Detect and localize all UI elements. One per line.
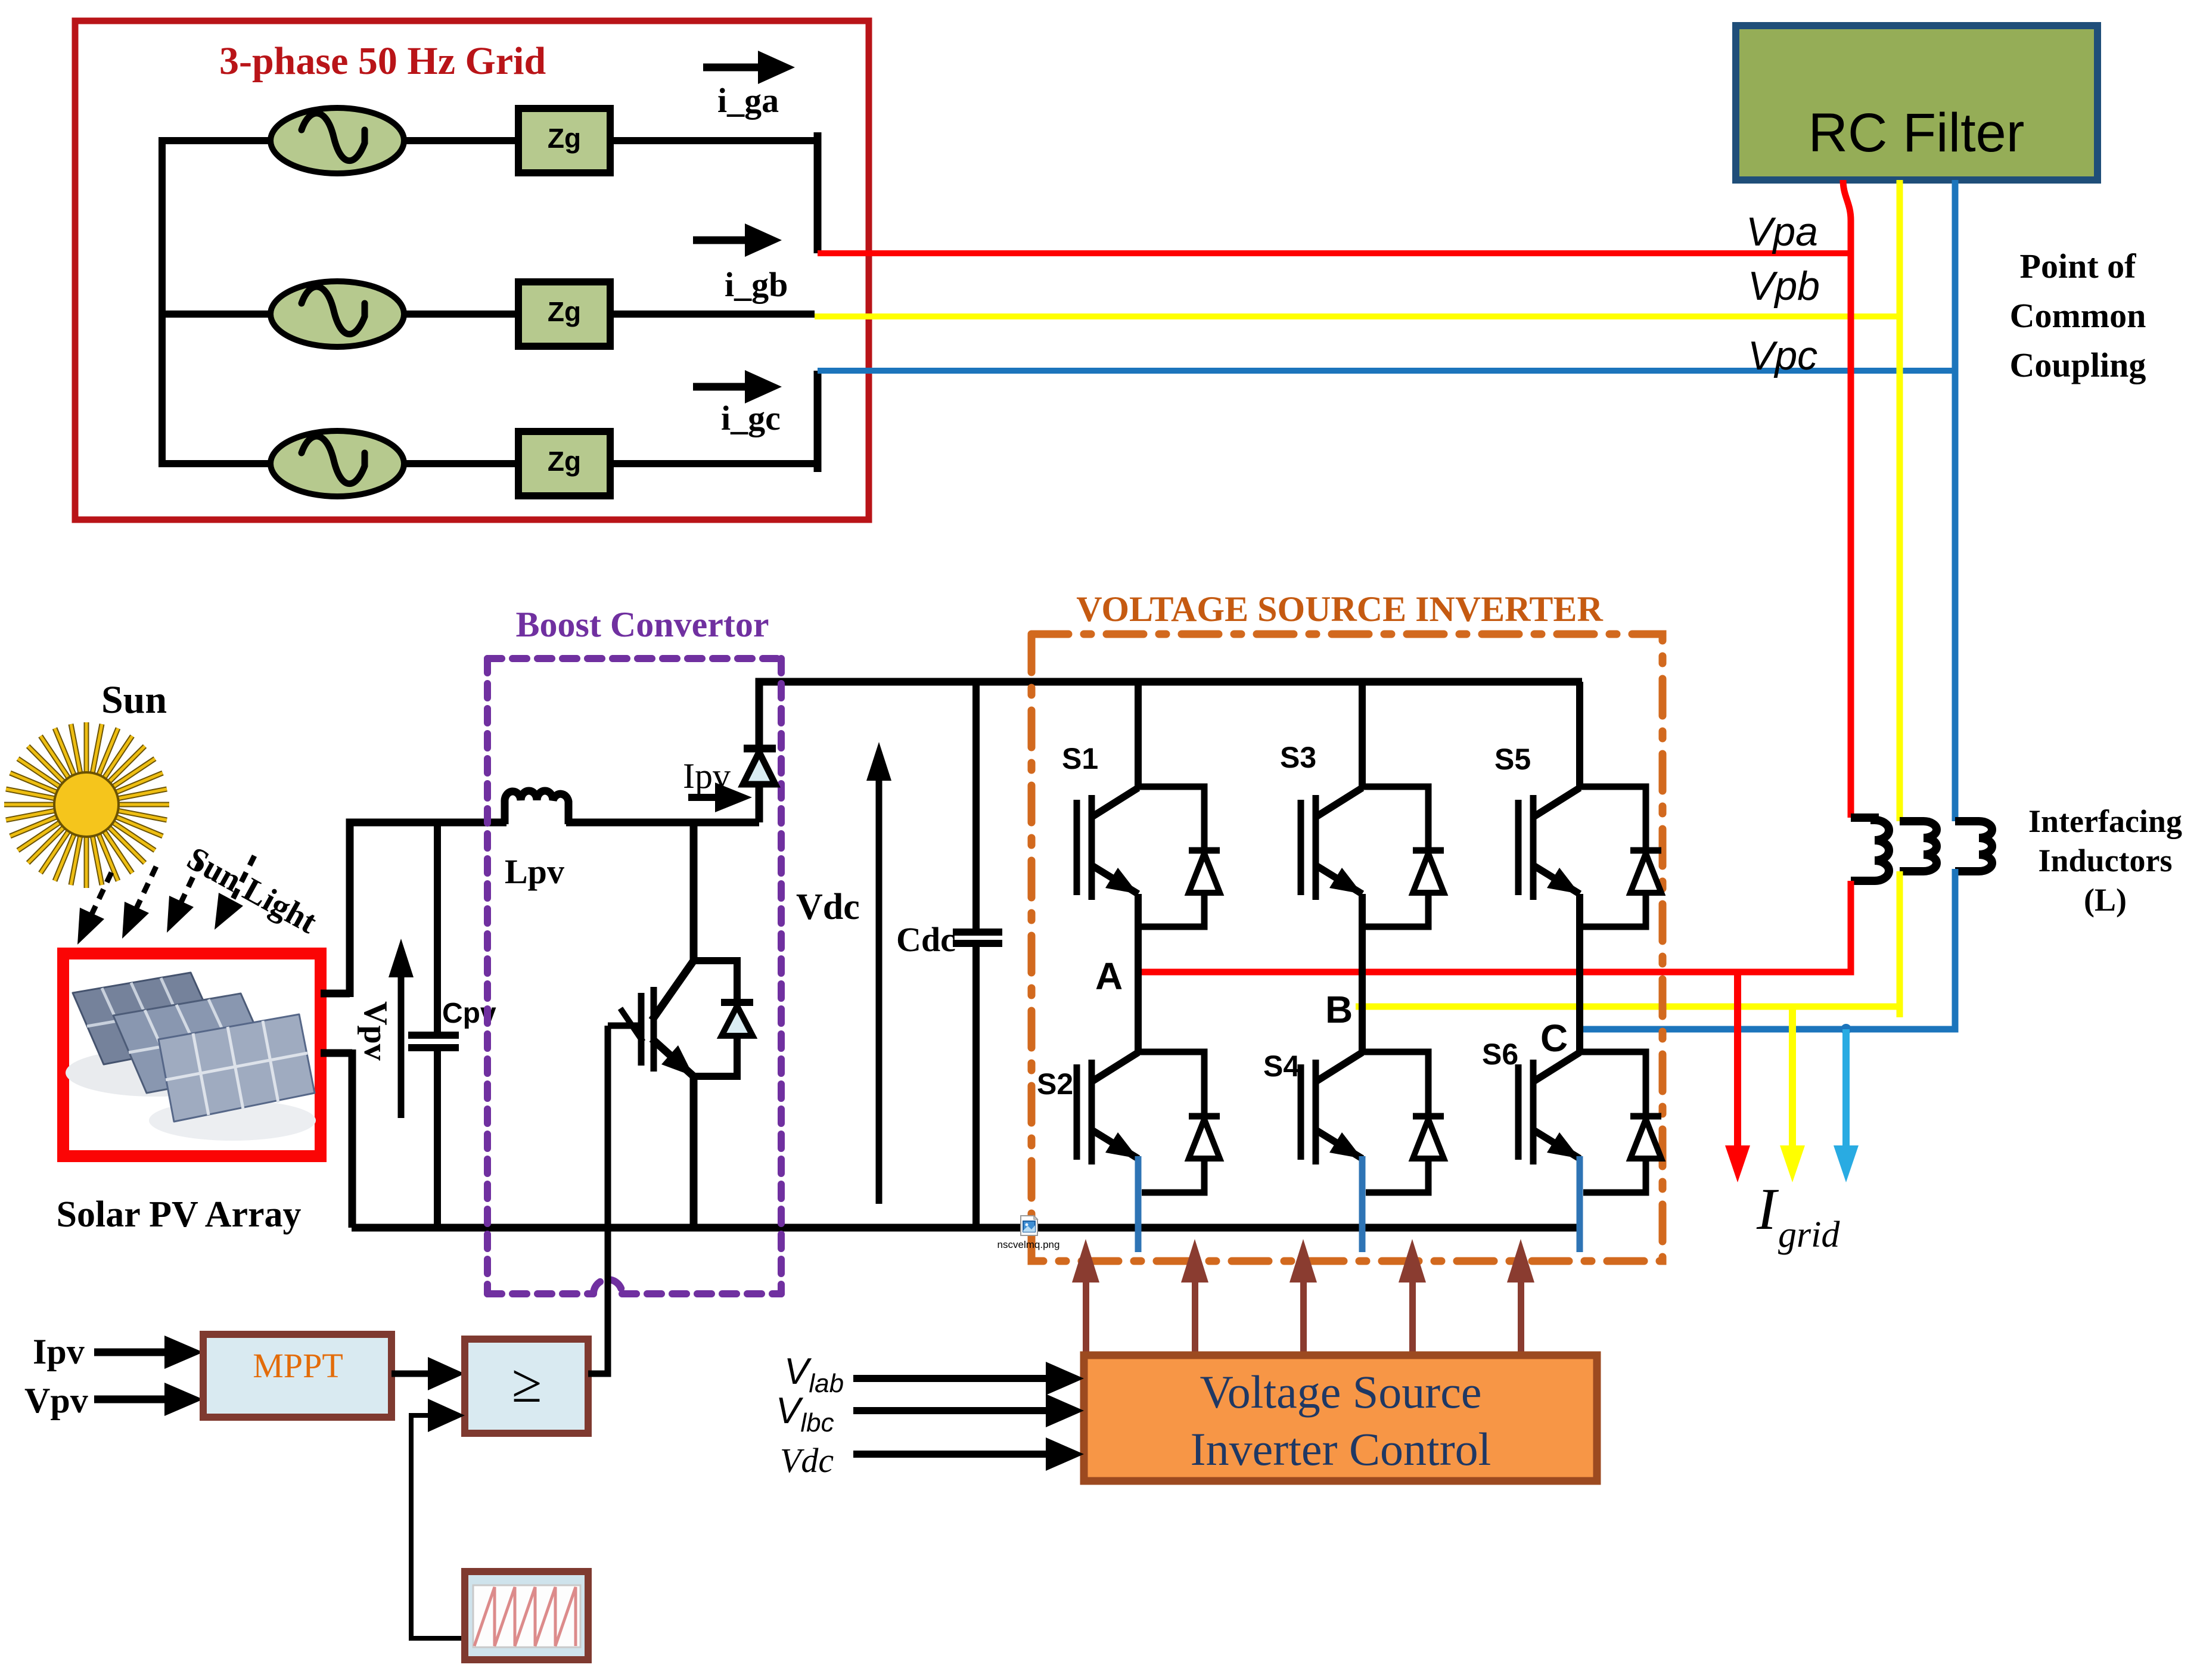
transistor S4 (IGBT with diode)	[1263, 1049, 1444, 1193]
wire: source Ga to Zg1	[404, 137, 518, 144]
svg-text:i_gb: i_gb	[725, 265, 788, 304]
wire Vpc (blue phase line)	[818, 368, 1955, 374]
wire: left bus	[159, 141, 166, 464]
svg-text:MPPT: MPPT	[253, 1346, 343, 1385]
current arrow Igrid phase a	[1725, 972, 1750, 1182]
svg-text:Ipv: Ipv	[33, 1332, 85, 1371]
wire: source Gc to Zg3	[404, 460, 518, 467]
wire: inductor La to node A (red)	[1138, 881, 1851, 972]
wire: phase c riser	[814, 371, 822, 472]
sawtooth feed arrowhead	[428, 1399, 465, 1432]
VSI dash-dot enclosure	[1031, 634, 1663, 1261]
impedance Zg (phase b)	[518, 282, 610, 346]
svg-text:Boost Convertor: Boost Convertor	[516, 605, 769, 644]
transistor S6 (IGBT with diode)	[1482, 1038, 1661, 1193]
arrow MPPT to comparator	[391, 1357, 465, 1390]
wire: inductor Lc to node C (blue)	[1578, 869, 1955, 1029]
PV panel rear	[73, 973, 222, 1064]
label Igrid	[1756, 1176, 1840, 1255]
current arrow i_ga	[703, 51, 795, 120]
voltage arrow Vpv	[357, 939, 414, 1118]
solar PV array block	[24, 589, 1663, 1660]
control input Vdc	[780, 1437, 1084, 1480]
svg-text:S3: S3	[1280, 741, 1316, 774]
wire: leg C mid	[1576, 894, 1583, 1053]
wire Vpa (red phase line)	[818, 250, 1851, 256]
wire: source Gb to Zg2	[404, 310, 518, 318]
label: point of common coupling	[2010, 247, 2146, 384]
boost convertor dashed enclosure	[487, 659, 781, 1294]
svg-text:RC Filter: RC Filter	[1809, 103, 2025, 163]
svg-text:Voltage Source: Voltage Source	[1200, 1366, 1482, 1418]
diode D1 (boost series diode)	[743, 749, 776, 784]
capacitor Cpv	[408, 822, 496, 1228]
svg-text:Vpb: Vpb	[1748, 263, 1820, 309]
wire: Lpv to boost diode corner	[566, 819, 759, 827]
sawtooth feed wire	[411, 1415, 465, 1638]
sun light dashed arrow 2	[122, 867, 156, 939]
svg-text:Inductors: Inductors	[2038, 843, 2172, 878]
wire: bus to source Ga	[159, 137, 272, 144]
inductor Lb	[1900, 821, 1937, 871]
svg-text:Vpv: Vpv	[24, 1381, 88, 1420]
impedance Zg (phase a)	[518, 108, 610, 173]
transistor Q1 (boost IGBT)	[608, 822, 694, 1228]
current arrow i_gc	[693, 370, 782, 437]
svg-text:C: C	[1540, 1017, 1568, 1060]
diode D2 (boost IGBT antiparallel)	[694, 961, 753, 1076]
wire: leg A emitter stub (blue)	[1135, 1156, 1142, 1252]
current arrow i_gb	[693, 223, 788, 304]
svg-text:i_gc: i_gc	[721, 399, 781, 437]
PV panel middle	[113, 993, 274, 1093]
svg-text:Vpa: Vpa	[1746, 209, 1818, 254]
sun icon	[4, 722, 169, 888]
control input V_lbc	[776, 1390, 1084, 1437]
svg-text:Lpv: Lpv	[505, 852, 564, 891]
wire: Zg1 to node a	[610, 137, 818, 144]
svg-text:≥: ≥	[512, 1353, 542, 1414]
inductor La	[1851, 818, 1889, 881]
PV panel front	[159, 1014, 315, 1122]
svg-text:Zg: Zg	[548, 296, 581, 327]
wire Vpb (yellow phase line)	[815, 313, 1900, 319]
gate drive arrow 2	[1181, 1239, 1208, 1355]
sun light dashed arrow 4	[215, 856, 254, 930]
input arrow Vpv	[94, 1383, 203, 1416]
voltage arrow Vdc	[796, 742, 891, 1204]
svg-text:Vpc: Vpc	[1748, 333, 1817, 378]
wire: bus to source Gc	[159, 460, 272, 467]
wire: RC filter phase c (blue)	[1952, 180, 1959, 821]
wire: DC negative rail	[352, 1224, 1582, 1232]
current arrow Igrid phase b	[1780, 1007, 1805, 1182]
wire: PV positive branch riser	[350, 822, 507, 997]
control input V_lab	[784, 1351, 1084, 1398]
svg-text:S6: S6	[1482, 1038, 1518, 1071]
VSI control block	[1084, 1355, 1597, 1481]
wire: DC positive rail	[759, 682, 1582, 822]
svg-text:3-phase 50 Hz Grid: 3-phase 50 Hz Grid	[219, 39, 546, 83]
gate drive arrow 3	[1289, 1239, 1317, 1355]
svg-text:Sun: Sun	[101, 678, 167, 722]
gate drive arrow 1	[1072, 1239, 1099, 1355]
sawtooth generator block	[465, 1572, 588, 1660]
wire: leg A mid	[1135, 894, 1142, 1053]
grid enclosure box	[75, 21, 869, 520]
transistor S3 (IGBT with diode)	[1280, 682, 1444, 927]
svg-text:Vdc: Vdc	[796, 887, 860, 927]
svg-text:S2: S2	[1037, 1067, 1073, 1101]
svg-text:(L): (L)	[2084, 882, 2127, 918]
wire: PV negative stub	[321, 1049, 352, 1057]
wire: bus to source Gb	[159, 310, 272, 318]
wire: Zg3 to node c	[610, 460, 818, 467]
svg-text:B: B	[1325, 988, 1353, 1031]
svg-text:Coupling: Coupling	[2010, 346, 2146, 384]
svg-text:grid: grid	[1778, 1215, 1840, 1255]
svg-text:S4: S4	[1263, 1049, 1300, 1083]
input arrow Ipv	[94, 1336, 203, 1369]
svg-text:nscvelmq.png: nscvelmq.png	[998, 1239, 1060, 1250]
svg-text:Vdc: Vdc	[780, 1441, 834, 1480]
stray file icon artifact	[1021, 1216, 1037, 1235]
svg-text:Interfacing: Interfacing	[2028, 803, 2182, 839]
wire: Zg2 to node b	[610, 310, 815, 318]
svg-text:S5: S5	[1494, 743, 1531, 776]
svg-text:VOLTAGE SOURCE INVERTER: VOLTAGE SOURCE INVERTER	[1076, 589, 1603, 629]
wire: comparator output to boost gate	[588, 1026, 608, 1374]
comparator block	[465, 1339, 588, 1433]
current arrow Ipv	[688, 782, 752, 812]
sun light dashed arrow 3	[167, 861, 201, 933]
wire: PV negative branch dropper	[349, 1049, 356, 1228]
inductor Lc	[1955, 821, 1992, 871]
wire: leg B mid	[1359, 894, 1366, 1053]
svg-text:Inverter Control: Inverter Control	[1191, 1423, 1491, 1475]
AC source Gb	[271, 281, 404, 347]
svg-text:A: A	[1095, 955, 1123, 998]
MPPT block	[203, 1334, 391, 1417]
capacitor Cdc	[896, 682, 1002, 1228]
current arrow Igrid phase c	[1834, 1024, 1859, 1182]
wire: RC filter phase a (red)	[1843, 180, 1851, 818]
sun light dashed arrow 1	[77, 872, 111, 945]
wire: leg C emitter stub (blue)	[1577, 1156, 1583, 1252]
svg-text:Zg: Zg	[548, 123, 581, 154]
wire: inductor Lb to node B (yellow)	[1356, 871, 1900, 1017]
svg-text:Vpv: Vpv	[357, 1001, 394, 1061]
AC source Ga	[271, 108, 404, 173]
svg-text:Point of: Point of	[2020, 247, 2137, 285]
gate drive arrow 5	[1507, 1239, 1534, 1355]
wire: phase a dropper	[814, 132, 822, 253]
RC filter block	[1736, 26, 2098, 180]
svg-text:Cdc: Cdc	[896, 920, 956, 959]
impedance Zg (phase c)	[518, 431, 610, 496]
svg-text:i_ga: i_ga	[717, 81, 779, 120]
gate drive arrow 4	[1399, 1239, 1426, 1355]
transistor S2 (IGBT with diode)	[1037, 1052, 1220, 1193]
svg-text:Zg: Zg	[548, 446, 581, 477]
svg-text:S1: S1	[1062, 742, 1098, 775]
AC source Gc	[271, 431, 404, 496]
svg-text:Common: Common	[2010, 296, 2146, 335]
wire: leg B emitter stub (blue)	[1359, 1156, 1366, 1252]
transistor S1 (IGBT with diode)	[1062, 682, 1220, 927]
wire: RC filter phase b (yellow)	[1897, 180, 1903, 821]
label: interfacing inductors	[2028, 803, 2182, 918]
wire: PV positive stub	[321, 990, 350, 998]
svg-text:Solar PV Array: Solar PV Array	[56, 1194, 301, 1235]
svg-text:I: I	[1756, 1176, 1779, 1242]
inductor Lpv	[505, 791, 568, 824]
transistor S5 (IGBT with diode)	[1494, 682, 1661, 927]
